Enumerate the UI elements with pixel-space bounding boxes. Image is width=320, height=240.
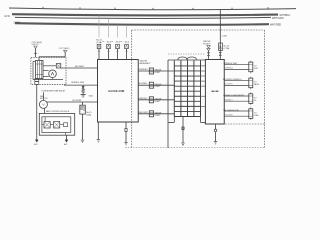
svg-text:BLU/WHT: BLU/WHT (225, 84, 234, 86)
svg-text:GAUGE ASM.: GAUGE ASM. (108, 89, 125, 93)
svg-text:WHT/RED: WHT/RED (270, 24, 281, 27)
svg-text:C420: C420 (222, 36, 228, 38)
svg-text:GRN/BLK WHT: GRN/BLK WHT (224, 63, 239, 65)
svg-text:M: M (42, 103, 44, 107)
svg-text:LIGHT: LIGHT (155, 86, 161, 88)
svg-text:BLU/RED: BLU/RED (139, 83, 148, 85)
svg-text:LIGHT: LIGHT (155, 115, 161, 117)
svg-text:A22: A22 (64, 143, 67, 146)
svg-text:GRN/BLK: GRN/BLK (225, 68, 234, 70)
svg-text:GRN/BLU GRN WHT/N: GRN/BLU GRN WHT/N (223, 95, 245, 97)
svg-text:YEL/GRN BLU/W: YEL/GRN BLU/W (223, 110, 239, 112)
svg-text:(7.5A): (7.5A) (224, 47, 230, 50)
svg-text:14 W: 14 W (4, 15, 10, 18)
svg-text:FUEL: FUEL (254, 115, 260, 117)
svg-text:LIGHT: LIGHT (155, 72, 161, 74)
svg-text:GRN/BLK GRN: GRN/BLK GRN (71, 82, 85, 84)
svg-text:A21: A21 (34, 143, 37, 146)
svg-text:FAN CONTROL MODULE: FAN CONTROL MODULE (46, 110, 70, 113)
svg-text:G401: G401 (89, 95, 94, 97)
svg-text:GRN/YEL: GRN/YEL (139, 98, 147, 100)
svg-text:LIGHT: LIGHT (155, 101, 161, 103)
svg-text:GRN/BLU: GRN/BLU (225, 100, 234, 102)
svg-text:TACH: TACH (254, 83, 260, 86)
svg-text:RED/GRN: RED/GRN (139, 112, 148, 114)
svg-text:GRN/RED: GRN/RED (139, 69, 148, 71)
svg-text:(10A): (10A) (86, 114, 91, 117)
svg-text:WHT/GRN: WHT/GRN (272, 17, 284, 20)
svg-text:C577 (BLK): C577 (BLK) (59, 48, 70, 50)
svg-text:ASSEMBLY: ASSEMBLY (140, 62, 152, 65)
svg-text:FAN RLY: FAN RLY (32, 43, 40, 46)
svg-text:BLU/WHT GRN/BLU: BLU/WHT GRN/BLU (223, 79, 242, 81)
svg-text:(7.5A): (7.5A) (96, 41, 102, 44)
svg-text:YEL/GRN: YEL/GRN (72, 100, 82, 102)
svg-text:5 PNK: 5 PNK (14, 23, 21, 25)
svg-text:CONDENSER FAN RELAY: CONDENSER FAN RELAY (41, 90, 66, 93)
svg-text:YEL/GRN: YEL/GRN (225, 115, 234, 117)
svg-text:VSP: VSP (254, 68, 259, 70)
svg-text:BLU/WHT: BLU/WHT (75, 66, 85, 68)
